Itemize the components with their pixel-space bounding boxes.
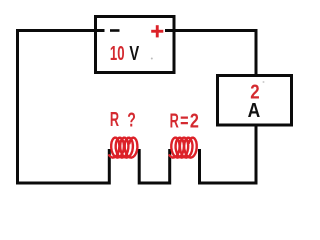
- svg-text:2: 2: [190, 110, 199, 132]
- ammeter U1 box: [218, 76, 292, 126]
- battery V1 box: [96, 17, 175, 73]
- resistor R=2 coil: [170, 138, 197, 158]
- wire: resistor R? right stub down and along bottom to resistor R=2 left stub: [139, 149, 170, 183]
- svg-text:R: R: [110, 109, 120, 131]
- svg-text:10: 10: [110, 43, 125, 65]
- svg-text:R: R: [170, 110, 180, 132]
- minus terminal mark: [110, 29, 120, 32]
- resistor R? coil: [109, 138, 137, 158]
- svg-text:?: ?: [127, 109, 136, 131]
- svg-text:V: V: [129, 43, 139, 65]
- wire: battery positive terminal right, top-right corner, down to ammeter top: [165, 31, 256, 78]
- plus terminal mark: [151, 25, 163, 37]
- svg-text:A: A: [248, 100, 261, 122]
- stray dot near 2: [263, 81, 265, 83]
- wire: battery negative terminal to left side down to bottom, to resistor R? left stub: [18, 31, 110, 184]
- svg-text:=: =: [180, 110, 188, 132]
- wire: resistor R=2 right stub down, bottom right, up to ammeter bottom: [200, 125, 257, 183]
- stray dot after V: [151, 58, 153, 60]
